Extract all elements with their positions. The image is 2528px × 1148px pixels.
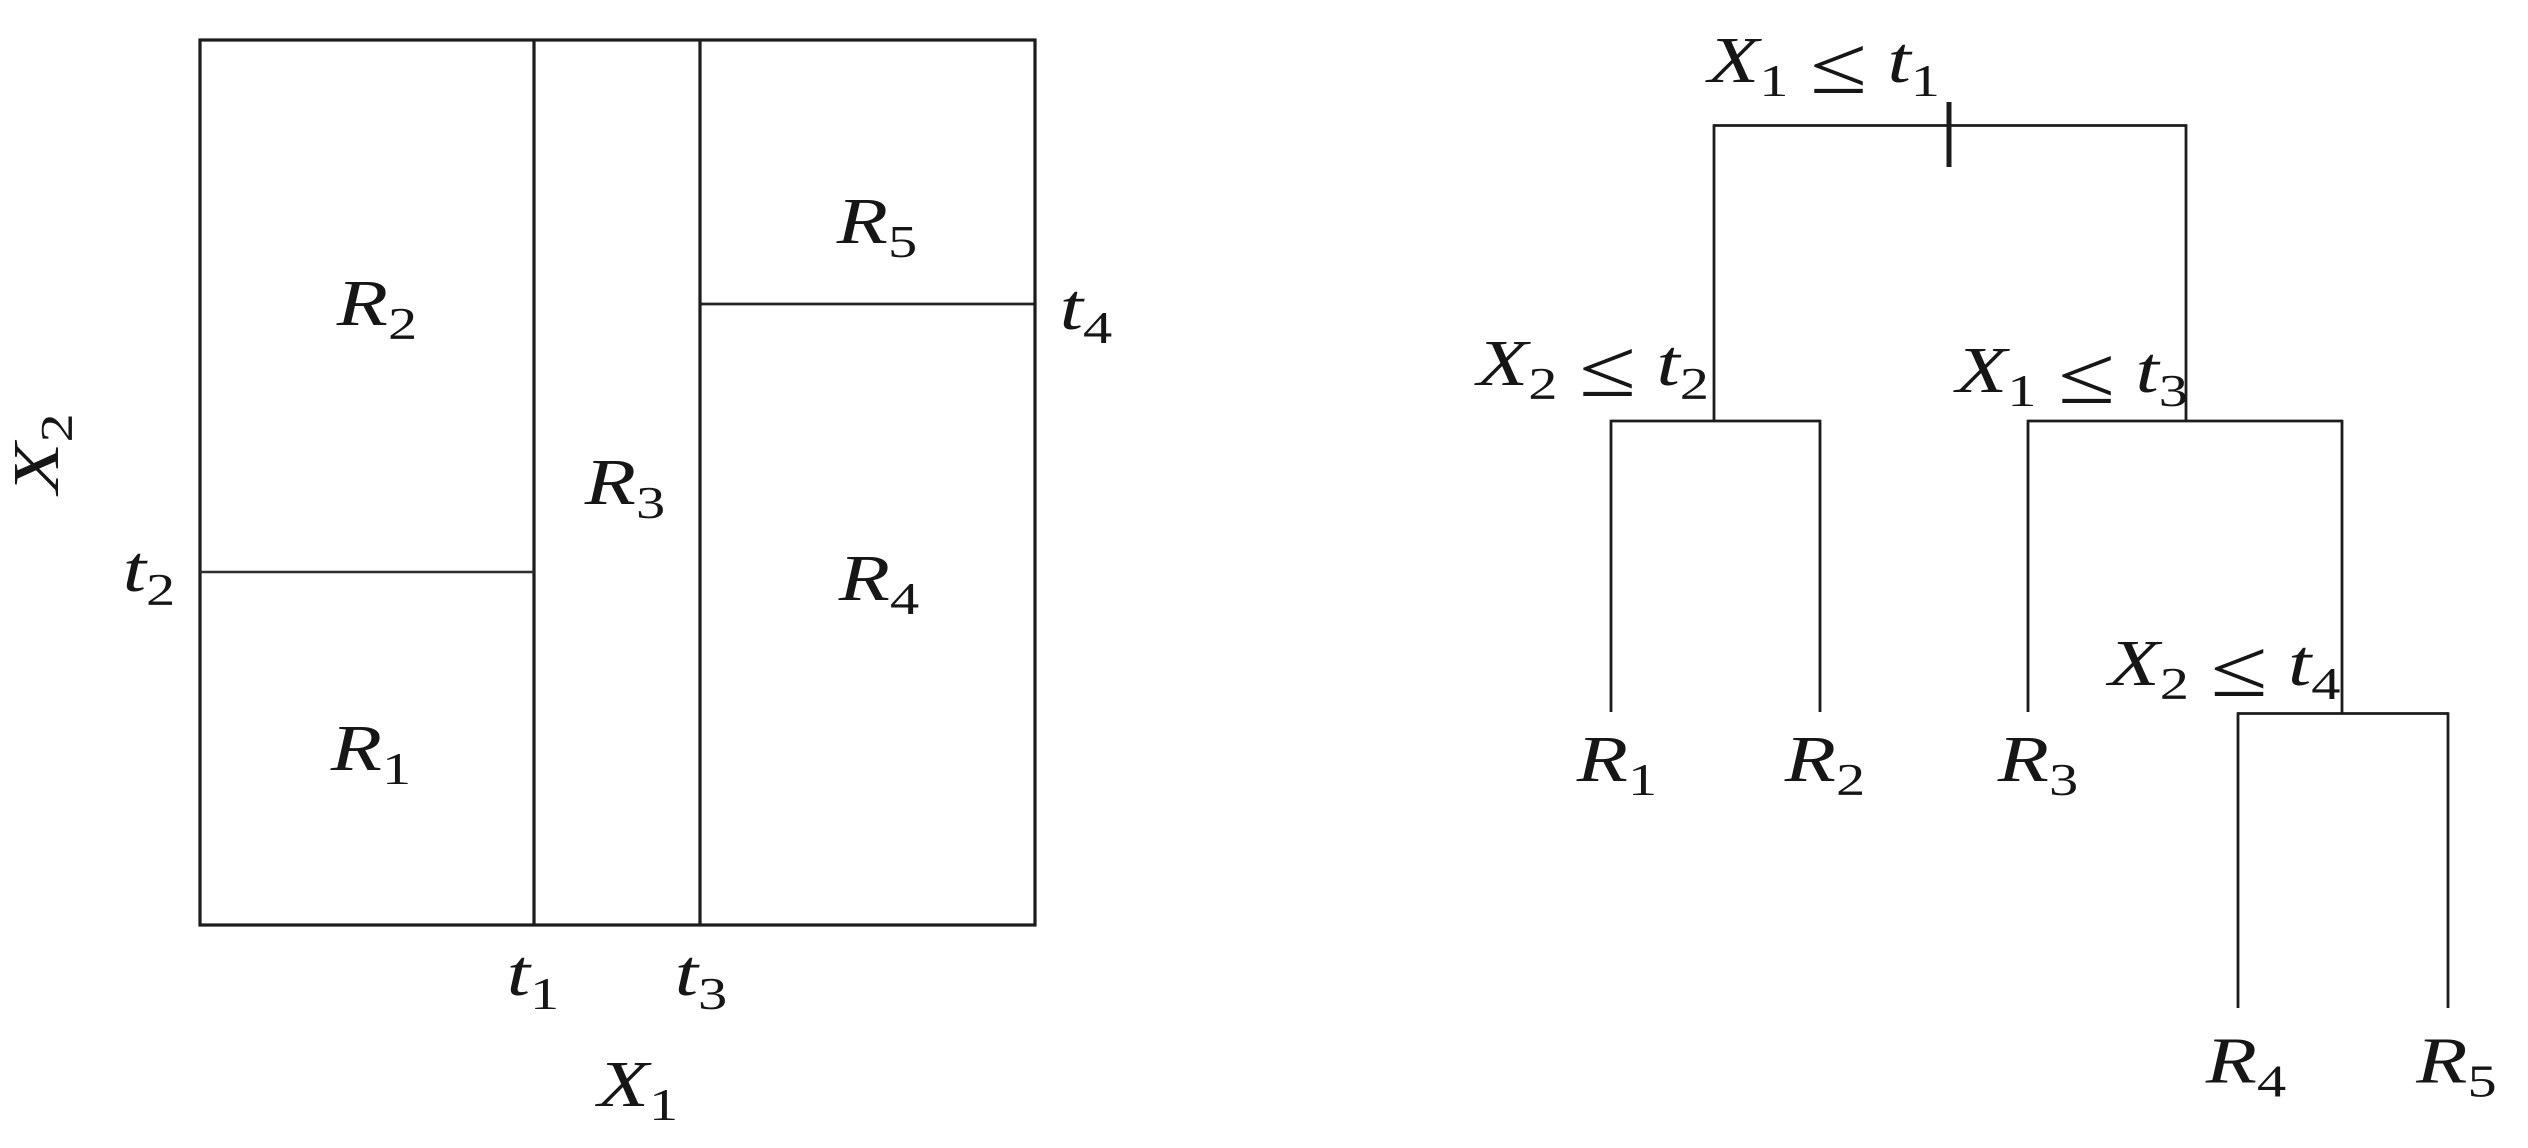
svg-text:X1 ≤ t3: X1 ≤ t3 <box>1953 330 2188 421</box>
node t4 tick label <box>1060 271 1113 353</box>
wire: leaf stem R2 <box>1819 420 1822 712</box>
svg-text:X2: X2 <box>0 413 82 497</box>
svg-text:X1 ≤ t1: X1 ≤ t1 <box>1705 20 1940 111</box>
tree root label X1<=t1 <box>1705 20 1940 111</box>
wire: right branch from root <box>2185 124 2188 421</box>
svg-text:R4: R4 <box>838 542 920 624</box>
wire: leaf stem R1 <box>1610 420 1613 712</box>
node R4 label <box>838 542 920 624</box>
wire: split line t4 horizontal <box>700 303 1035 306</box>
tree root split bar X1<=t1 <box>1714 124 2186 127</box>
svg-text:R5: R5 <box>836 185 918 267</box>
node t3 tick label <box>675 937 728 1019</box>
wire: split line t1 vertical <box>532 40 535 925</box>
wire: left branch from root <box>1713 124 1716 421</box>
wire: leaf stem R4 <box>2237 712 2240 1008</box>
tree root tick mark <box>1947 102 1952 167</box>
wire: leaf stem R5 <box>2447 712 2450 1008</box>
node t1 tick label <box>507 937 560 1019</box>
tree node bar X1<=t3 <box>2028 420 2342 423</box>
wire: branch to X2<=t4 <box>2341 420 2344 714</box>
tree node bar X2<=t4 <box>2238 712 2448 715</box>
node R1 label <box>330 712 412 794</box>
tree node label X2<=t2 <box>1474 323 1709 414</box>
svg-text:X2 ≤ t4: X2 ≤ t4 <box>2105 623 2340 714</box>
svg-text:R1: R1 <box>1576 723 1658 805</box>
svg-text:t1: t1 <box>507 937 560 1019</box>
axis X1 label <box>594 1048 678 1130</box>
svg-text:R2: R2 <box>336 267 418 349</box>
svg-text:t2: t2 <box>123 533 175 615</box>
svg-text:R4: R4 <box>2205 1025 2287 1107</box>
svg-text:R1: R1 <box>330 712 412 794</box>
wire: leaf stem R3 <box>2027 420 2030 712</box>
partition box <box>200 40 1035 925</box>
svg-text:X1: X1 <box>594 1048 678 1130</box>
svg-text:R2: R2 <box>1784 723 1866 805</box>
leaf R4 label <box>2205 1025 2287 1107</box>
node t2 tick label <box>123 533 175 615</box>
tree node label X1<=t3 <box>1953 330 2188 421</box>
node R2 label <box>336 267 418 349</box>
axis X2 label (rotated) <box>0 413 82 497</box>
tree node bar X2<=t2 <box>1611 420 1820 423</box>
svg-text:R5: R5 <box>2415 1025 2497 1107</box>
svg-text:R3: R3 <box>584 446 666 528</box>
node R5 label <box>836 185 918 267</box>
leaf R2 label <box>1784 723 1866 805</box>
wire: split line t2 horizontal <box>200 571 534 574</box>
leaf R5 label <box>2415 1025 2497 1107</box>
tree node label X2<=t4 <box>2105 623 2340 714</box>
wire: split line t3 vertical <box>698 40 701 925</box>
svg-text:t3: t3 <box>675 937 728 1019</box>
node R3 label <box>584 446 666 528</box>
leaf R1 label <box>1576 723 1658 805</box>
svg-text:X2 ≤ t2: X2 ≤ t2 <box>1474 323 1709 414</box>
leaf R3 label <box>1997 723 2079 805</box>
svg-text:R3: R3 <box>1997 723 2079 805</box>
svg-text:t4: t4 <box>1060 271 1113 353</box>
